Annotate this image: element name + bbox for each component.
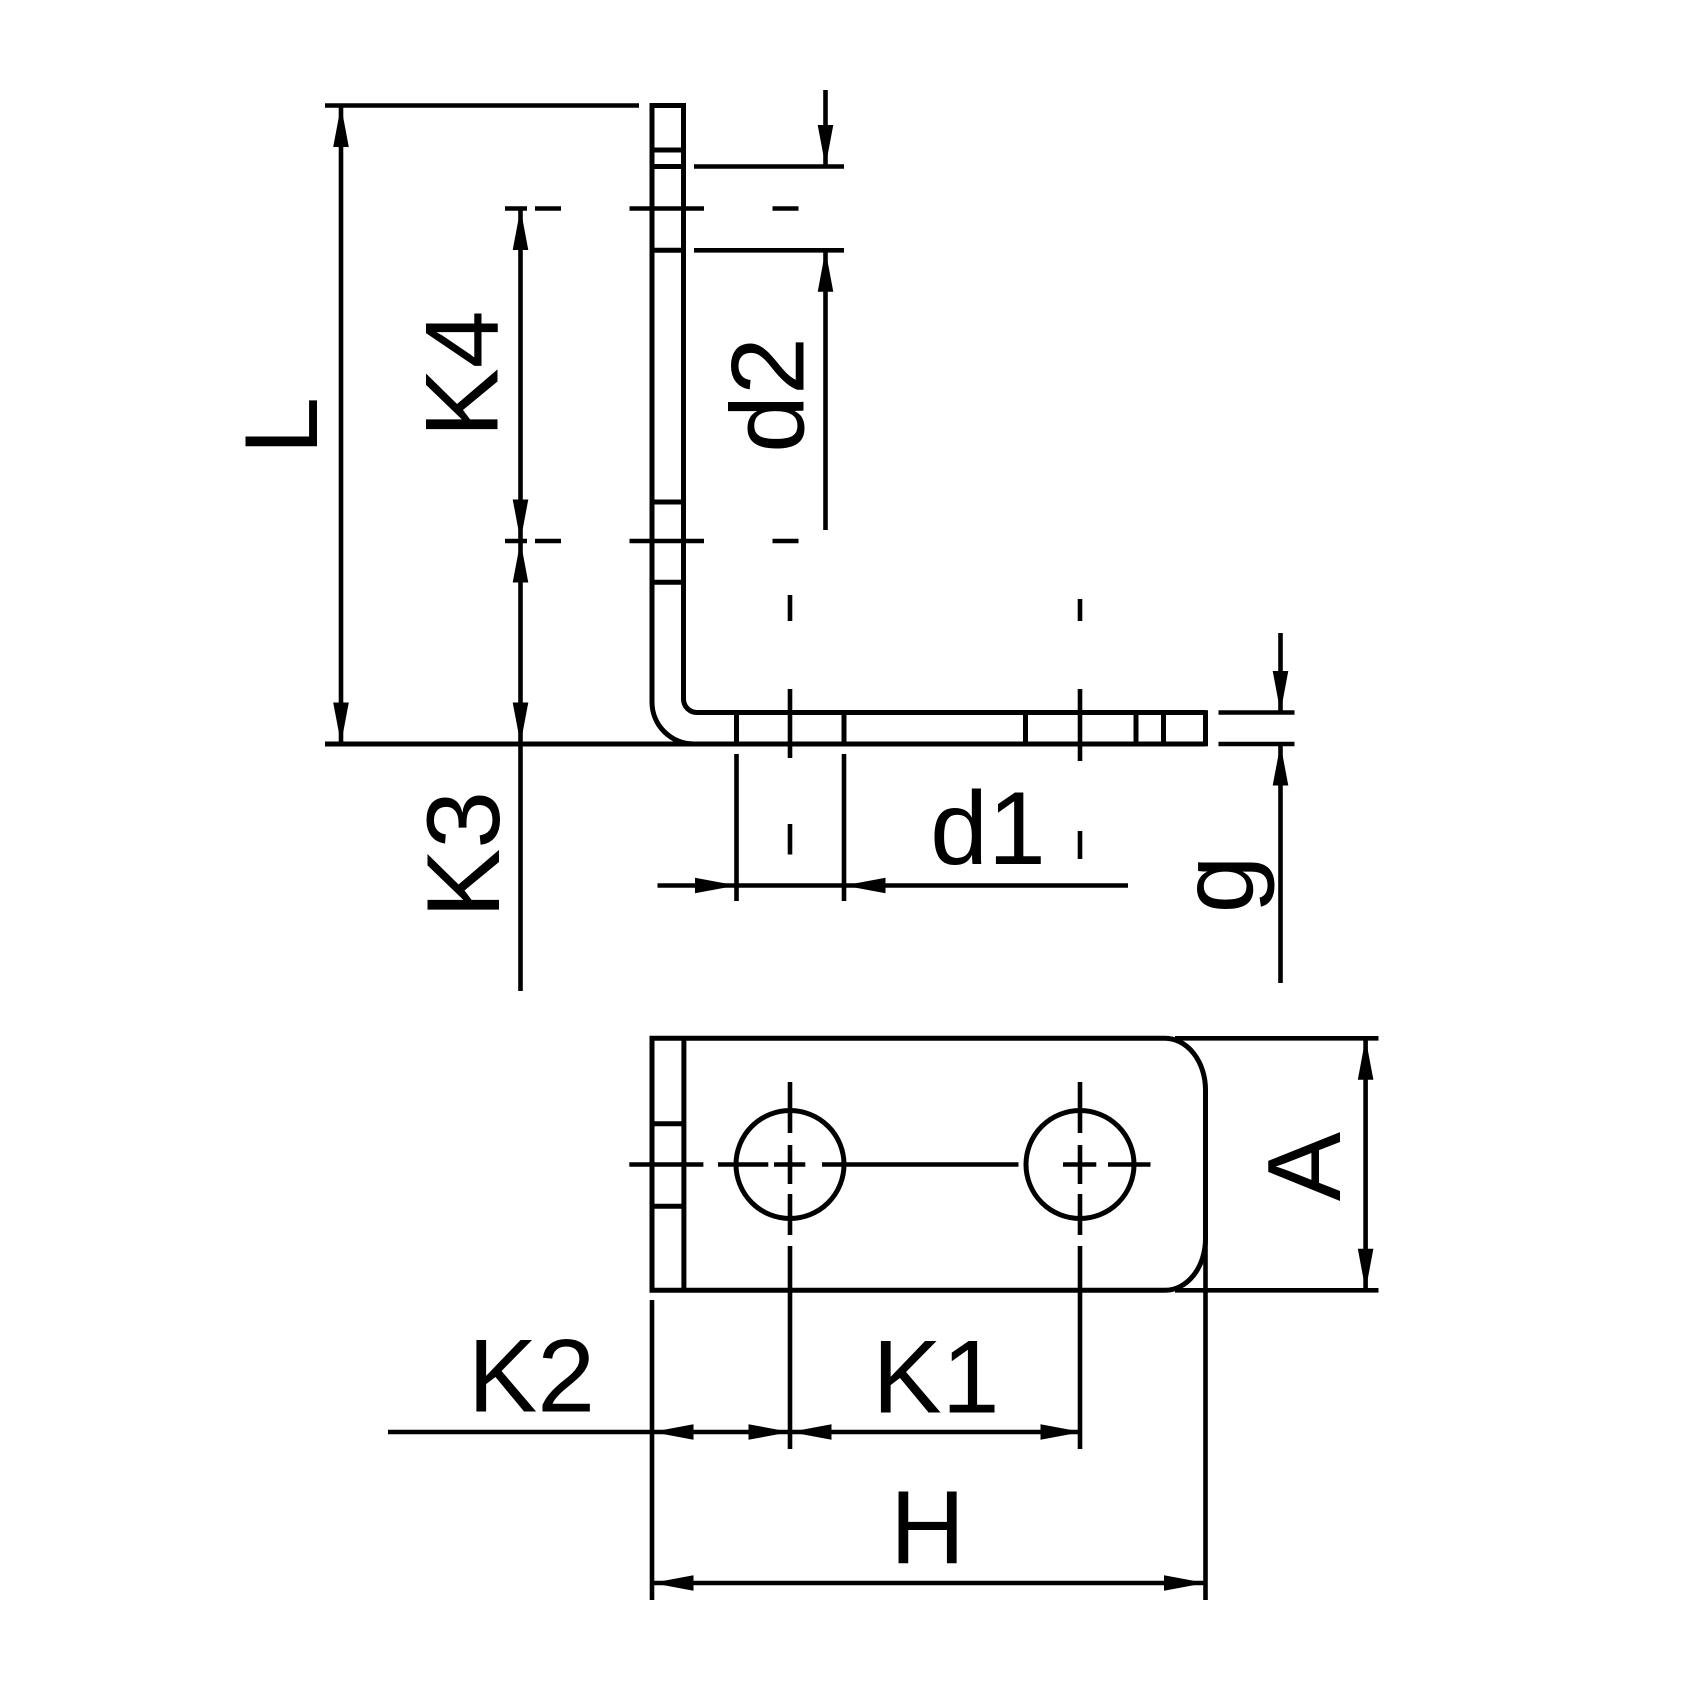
dimension g bottom extension line bbox=[1219, 742, 1295, 747]
side view: hole2 top edge bbox=[650, 500, 685, 505]
svg-text:d2: d2 bbox=[711, 337, 827, 453]
dimension g lower arrow bbox=[1273, 744, 1289, 786]
side view: baseline bottom edge bbox=[325, 742, 1206, 747]
side view: hole2 bottom edge bbox=[650, 580, 685, 585]
dimension g top extension line bbox=[1219, 710, 1295, 715]
svg-text:L: L bbox=[224, 397, 340, 455]
dimension K2 K1 line bbox=[388, 1430, 1082, 1435]
side view: vertical leg inner edge with inner bend radius bbox=[684, 106, 698, 713]
holeB vertical centre line bbox=[1078, 599, 1083, 1449]
dimension K3 line bbox=[518, 541, 523, 991]
side view: vertical leg top end edge bbox=[650, 103, 687, 108]
dimension A bottom extension line bbox=[1175, 1288, 1379, 1293]
dimension K3 bottom arrow bbox=[513, 703, 529, 745]
top view: flange hole hidden edge upper bbox=[650, 1121, 684, 1126]
dimension K2 right arrow bbox=[749, 1424, 791, 1440]
dimension A bottom arrow bbox=[1358, 1249, 1374, 1291]
dimension d2 line upper part bbox=[823, 90, 828, 167]
side view: vertical leg outer edge with outer bend radius bbox=[652, 106, 694, 745]
side view: holeA left edge tick bbox=[734, 713, 739, 745]
dimension L top arrow bbox=[333, 106, 349, 148]
dimension g upper arrow bbox=[1273, 671, 1289, 713]
dimension d2 upper arrow bbox=[818, 125, 834, 167]
side view: hole1 top edge bbox=[650, 164, 685, 169]
dimension K4 bottom arrow bbox=[513, 500, 529, 542]
dimension d2 line lower part bbox=[823, 250, 828, 530]
dimension g line upper part bbox=[1278, 633, 1283, 713]
hole1 centre line bbox=[505, 206, 799, 211]
holeA vertical centre line bbox=[788, 595, 793, 1449]
dimension d1 right extension line bbox=[842, 754, 847, 901]
svg-text:A: A bbox=[1247, 1131, 1363, 1201]
dimension d2 bottom extension line bbox=[694, 248, 844, 253]
top view: plate outline with rounded right end bbox=[652, 1038, 1206, 1290]
dimension A top extension line bbox=[1175, 1036, 1379, 1041]
side view: horizontal leg right end edge bbox=[1203, 710, 1208, 746]
top view: hole A circle bbox=[736, 1111, 844, 1219]
dimension H right arrow bbox=[1164, 1575, 1206, 1591]
dimension d1 line bbox=[658, 883, 1129, 888]
svg-text:K1: K1 bbox=[872, 1320, 999, 1436]
left edge extension line for K2 and H bbox=[650, 1300, 655, 1600]
side view: right end corner tangent tick bbox=[1161, 713, 1166, 745]
dimension A line bbox=[1363, 1038, 1368, 1290]
dimension H left arrow bbox=[652, 1575, 694, 1591]
svg-text:K2: K2 bbox=[468, 1319, 595, 1435]
side view: holeB left edge tick bbox=[1023, 713, 1028, 745]
dimension g line lower part bbox=[1278, 744, 1283, 983]
top view: horizontal centre line bbox=[629, 1162, 1150, 1167]
dimension K1 right arrow bbox=[1041, 1424, 1083, 1440]
dimension L bottom arrow bbox=[333, 703, 349, 745]
dimension d2 top extension line bbox=[694, 164, 844, 169]
dimension H line bbox=[652, 1581, 1206, 1586]
dimension K2 left arrow bbox=[652, 1424, 694, 1440]
svg-text:g: g bbox=[1160, 856, 1276, 914]
side view: holeB right edge tick bbox=[1134, 713, 1139, 745]
svg-text:K4: K4 bbox=[405, 310, 521, 437]
top view: hole B circle bbox=[1026, 1111, 1134, 1219]
svg-text:K3: K3 bbox=[406, 791, 522, 918]
hole2 centre line bbox=[505, 539, 799, 544]
dimension d2 lower arrow bbox=[818, 250, 834, 291]
side view: horizontal leg top edge bbox=[697, 710, 1206, 715]
top view: bend fold line bbox=[681, 1038, 686, 1290]
dimension K3 top arrow bbox=[513, 541, 529, 583]
svg-text:d1: d1 bbox=[930, 771, 1046, 887]
side view: leg top corner tangent line bbox=[650, 148, 685, 153]
side view: hole1 bottom edge bbox=[650, 248, 685, 253]
right edge extension line for H bbox=[1203, 1239, 1208, 1600]
dimension A top arrow bbox=[1358, 1038, 1374, 1080]
dimension d1 left arrow bbox=[695, 878, 737, 894]
dimension d1 right arrow bbox=[844, 878, 886, 894]
top view: flange hole hidden edge lower bbox=[650, 1204, 684, 1209]
dimension L line bbox=[339, 106, 344, 745]
side view: holeA right edge tick bbox=[842, 713, 847, 745]
dimension L top extension line bbox=[325, 103, 639, 108]
dimension K4 line bbox=[518, 209, 523, 542]
dimension d1 left extension line bbox=[734, 754, 739, 901]
svg-text:H: H bbox=[890, 1470, 965, 1586]
dimension K4 top arrow bbox=[513, 209, 529, 251]
dimension K1 left arrow bbox=[790, 1424, 832, 1440]
